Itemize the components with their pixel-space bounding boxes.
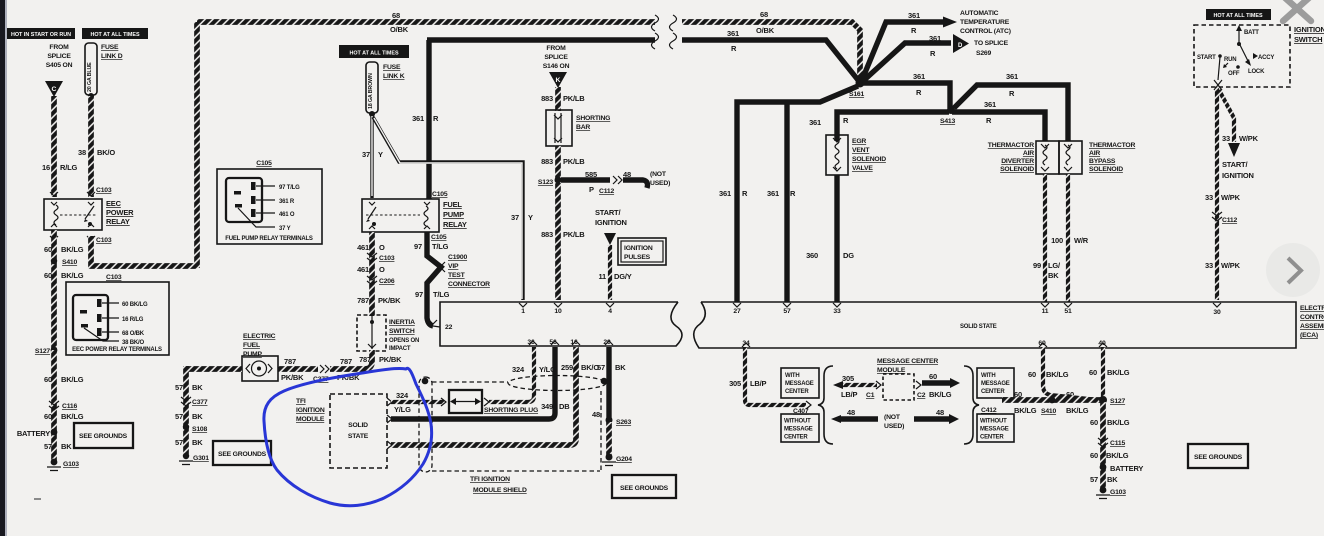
svg-text:BK/LG: BK/LG (1046, 370, 1069, 379)
svg-text:BK/LG: BK/LG (61, 245, 84, 254)
connector C377 (pump) (320, 365, 329, 373)
svg-text:C115: C115 (1110, 440, 1125, 447)
splice S410 (51, 258, 57, 264)
svg-text:360: 360 (806, 251, 818, 260)
svg-text:BK: BK (61, 442, 72, 451)
svg-text:SEE GROUNDS: SEE GROUNDS (620, 485, 669, 492)
svg-text:MESSAGE: MESSAGE (784, 427, 813, 433)
svg-text:37 Y: 37 Y (279, 226, 291, 232)
svg-text:THERMACTOR: THERMACTOR (1089, 142, 1135, 149)
svg-text:R/LG: R/LG (60, 163, 77, 172)
svg-text:259: 259 (561, 363, 573, 372)
wire 60 BK/LG S127 to C115 (1100, 402, 1106, 490)
pin 10 (554, 303, 562, 307)
svg-text:787: 787 (340, 357, 352, 366)
svg-text:HOT AT ALL TIMES: HOT AT ALL TIMES (1213, 13, 1263, 19)
svg-text:RELAY: RELAY (443, 220, 467, 229)
svg-text:(NOT: (NOT (884, 414, 901, 421)
box WITH MESSAGE CENTER (left) (781, 368, 819, 398)
wire 361 R S161 to ATC (862, 22, 944, 80)
svg-text:IMPACT: IMPACT (389, 346, 411, 352)
svg-text:361: 361 (913, 72, 925, 81)
svg-text:MODULE SHIELD: MODULE SHIELD (473, 487, 527, 494)
svg-text:R: R (742, 189, 748, 198)
wire 305 LB/P brace to module (C1) (833, 381, 843, 389)
svg-text:TEMPERATURE: TEMPERATURE (960, 19, 1010, 26)
svg-text:Y: Y (528, 213, 533, 222)
svg-text:33: 33 (1205, 193, 1213, 202)
svg-text:R: R (790, 189, 796, 198)
svg-text:BK: BK (615, 363, 626, 372)
wire 361 R S161 to ECA pins 27 and 57 (737, 86, 858, 302)
box WITHOUT MESSAGE CENTER (right) (977, 414, 1014, 442)
svg-text:THERMACTOR: THERMACTOR (988, 142, 1034, 149)
bus wire 68 O/BK right segment to S161 (682, 22, 860, 80)
label HOT AT ALL TIMES (fuse link D) (82, 28, 148, 39)
svg-text:FROM: FROM (49, 44, 69, 51)
svg-text:FUEL: FUEL (243, 342, 260, 349)
riser 68 O/BK up to top bus (194, 22, 200, 268)
svg-text:SEE GROUNDS: SEE GROUNDS (79, 433, 128, 440)
svg-text:30: 30 (1213, 309, 1221, 316)
svg-text:33: 33 (833, 308, 841, 315)
svg-text:SOLID STATE: SOLID STATE (960, 324, 997, 330)
svg-text:P: P (589, 185, 594, 194)
ground G301 (183, 453, 189, 459)
svg-text:60: 60 (44, 245, 52, 254)
wire 37 Y fuse link K down to relay (370, 114, 373, 198)
svg-text:FUEL: FUEL (443, 200, 462, 209)
svg-text:1: 1 (521, 308, 525, 315)
svg-text:LINK D: LINK D (101, 53, 123, 60)
wire 787 PK/BK inertia switch to pump (330, 350, 372, 369)
connector K (triangle) (549, 72, 567, 88)
svg-text:BK/LG: BK/LG (1107, 418, 1130, 427)
svg-text:R: R (1009, 89, 1015, 98)
svg-text:C105: C105 (256, 160, 272, 167)
svg-text:PK/BK: PK/BK (379, 355, 402, 364)
connector C (triangle) (45, 81, 63, 97)
wire 883 PK/LB connector K to shorting bar (555, 87, 561, 111)
svg-text:AUTOMATIC: AUTOMATIC (960, 10, 999, 17)
svg-text:MODULE: MODULE (296, 416, 325, 423)
wire 305 LB/P ECA pin 34 to C407 (745, 347, 806, 405)
svg-text:324: 324 (396, 391, 409, 400)
svg-text:TO SPLICE: TO SPLICE (974, 40, 1009, 47)
connector C103 (bottom of relay) (50, 236, 95, 240)
svg-text:SWITCH: SWITCH (1294, 35, 1322, 44)
svg-text:IGNITION: IGNITION (1222, 171, 1254, 180)
svg-text:BK/LG: BK/LG (61, 375, 84, 384)
svg-text:11: 11 (598, 272, 606, 281)
svg-text:60: 60 (1090, 451, 1098, 460)
svg-text:38: 38 (78, 148, 86, 157)
svg-text:57: 57 (175, 383, 183, 392)
svg-text:Y: Y (378, 150, 383, 159)
svg-text:FUSE: FUSE (101, 44, 119, 51)
wire 461 O relay to C103 (369, 232, 375, 316)
splice S161 (856, 79, 865, 88)
svg-text:PK/LB: PK/LB (563, 230, 585, 239)
svg-text:ASSEMBL: ASSEMBL (1300, 323, 1324, 330)
svg-text:LOCK: LOCK (1248, 69, 1265, 75)
pin 4 (606, 303, 614, 307)
svg-text:PK/LB: PK/LB (563, 157, 585, 166)
connector D (triangle) (953, 34, 969, 53)
svg-text:MESSAGE CENTER: MESSAGE CENTER (877, 358, 938, 365)
connector C1900 VIP test connector (437, 262, 445, 272)
svg-text:97 T/LG: 97 T/LG (279, 185, 300, 191)
svg-text:MESSAGE: MESSAGE (981, 381, 1010, 387)
ground G204 (606, 454, 613, 461)
svg-text:4: 4 (608, 308, 612, 315)
wire 361 R S161 to splice S269 (862, 43, 951, 82)
svg-text:SOLENOID: SOLENOID (1000, 166, 1034, 173)
svg-text:18 GA BROWN: 18 GA BROWN (368, 73, 374, 109)
svg-text:60 BK/LG: 60 BK/LG (122, 302, 148, 308)
svg-text:SOLENOID: SOLENOID (1089, 166, 1123, 173)
svg-text:T/LG: T/LG (433, 290, 450, 299)
svg-text:STATE: STATE (348, 433, 369, 440)
svg-text:SWITCH: SWITCH (389, 328, 415, 335)
svg-text:S410: S410 (62, 259, 77, 266)
svg-text:SEE GROUNDS: SEE GROUNDS (1194, 454, 1243, 461)
svg-text:PK/LB: PK/LB (563, 94, 585, 103)
svg-text:361: 361 (984, 100, 996, 109)
svg-text:R: R (843, 116, 849, 125)
wire 324 Y/LG TFI to shorting plug (391, 400, 444, 404)
svg-text:EEC POWER RELAY TERMINALS: EEC POWER RELAY TERMINALS (72, 347, 162, 353)
pin 33 (833, 303, 841, 307)
wire 57 BK ECA pin 20 to S263 (606, 347, 611, 420)
svg-text:C1900: C1900 (448, 254, 467, 261)
svg-text:IGNITION: IGNITION (595, 218, 627, 227)
svg-text:SOLENOID: SOLENOID (852, 156, 886, 163)
TFI pin connectors (387, 398, 392, 449)
splice S123 (555, 177, 562, 184)
wire 60 BK/LG module to right (C2) (916, 381, 921, 389)
svg-text:C412: C412 (981, 407, 997, 414)
svg-text:G103: G103 (1110, 489, 1126, 496)
wire 48 (not used, left) (831, 415, 841, 423)
wire 57 BK pump to ground column (186, 366, 242, 372)
left dark screen strip (0, 0, 5, 536)
pin 30 (1213, 303, 1221, 307)
svg-text:51: 51 (1064, 308, 1072, 315)
svg-text:EGR: EGR (852, 138, 866, 145)
svg-text:361: 361 (412, 114, 424, 123)
svg-text:787: 787 (357, 296, 369, 305)
svg-text:S269: S269 (976, 50, 991, 57)
svg-text:C112: C112 (599, 188, 614, 195)
svg-text:R: R (433, 114, 439, 123)
svg-text:60: 60 (1090, 418, 1098, 427)
svg-text:VIP: VIP (448, 263, 459, 270)
node BATTERY (left) (51, 429, 58, 436)
svg-text:305: 305 (729, 379, 741, 388)
svg-text:C2: C2 (917, 392, 926, 399)
svg-text:O/BK: O/BK (756, 26, 775, 35)
connector C206 (367, 276, 377, 285)
svg-text:WITHOUT: WITHOUT (784, 419, 811, 425)
solenoid: thermactor air diverter solenoid (1036, 141, 1059, 174)
node BATTERY (right) (1100, 464, 1107, 471)
svg-text:S413: S413 (940, 118, 955, 125)
wire 99 LG/BK diverter solenoid to ECA pin 11 (1043, 174, 1047, 302)
svg-text:787: 787 (284, 357, 296, 366)
pin 57 (783, 303, 791, 307)
ground G103 (left) (51, 459, 58, 466)
svg-text:R: R (930, 49, 936, 58)
svg-text:37: 37 (511, 213, 519, 222)
svg-text:ACCY: ACCY (1258, 55, 1274, 61)
svg-text:R: R (986, 116, 992, 125)
connector C112 (ignition feed) (1212, 212, 1222, 221)
svg-text:57: 57 (44, 442, 52, 451)
svg-text:OPENS ON: OPENS ON (389, 338, 419, 344)
svg-text:BK/O: BK/O (97, 148, 115, 157)
brace (right group) (964, 366, 979, 444)
svg-text:C206: C206 (379, 278, 395, 285)
shield: TFI ignition module shield (419, 376, 606, 473)
svg-text:461: 461 (357, 265, 369, 274)
svg-text:349: 349 (541, 402, 553, 411)
svg-text:SPLICE: SPLICE (47, 53, 71, 60)
svg-text:RUN: RUN (1224, 57, 1236, 63)
svg-text:PK/BK: PK/BK (281, 373, 304, 382)
pin 1 (519, 303, 527, 307)
svg-text:OFF: OFF (1228, 71, 1240, 77)
svg-text:IGNITION: IGNITION (624, 245, 653, 252)
svg-text:27: 27 (733, 308, 741, 315)
connector C115 (1098, 438, 1108, 447)
svg-text:PK/BK: PK/BK (378, 296, 401, 305)
svg-text:60: 60 (44, 375, 52, 384)
node: FROM SPLICE S405 ON (46, 44, 73, 69)
svg-text:BK/LG: BK/LG (929, 390, 952, 399)
svg-text:BK/LG: BK/LG (61, 412, 84, 421)
ground G103 (right) (1100, 487, 1107, 494)
svg-text:37: 37 (362, 150, 370, 159)
svg-text:VENT: VENT (852, 147, 870, 154)
svg-text:SOLID: SOLID (348, 422, 368, 429)
IC: ECA solid state module (left part) (440, 302, 682, 346)
svg-text:START: START (1197, 55, 1216, 61)
svg-text:S161: S161 (849, 91, 864, 98)
svg-text:G301: G301 (193, 455, 209, 462)
svg-text:97: 97 (415, 290, 423, 299)
svg-text:K: K (556, 77, 561, 84)
svg-text:57: 57 (597, 363, 605, 372)
svg-text:AIR: AIR (1089, 150, 1100, 157)
wire 361 R S161 to S413 (863, 83, 950, 108)
wire 38 BK/O fuse link D to relay (88, 96, 94, 197)
solenoid: EGR vent solenoid valve (826, 135, 848, 175)
bus wire 361 R right segment to S161 (682, 40, 858, 80)
fuse link K (366, 62, 405, 117)
svg-text:W/PK: W/PK (1221, 261, 1241, 270)
svg-text:TFI IGNITION: TFI IGNITION (470, 476, 510, 483)
svg-text:PULSES: PULSES (624, 254, 651, 261)
wire 33 W/PK ignition switch to START/IGNITION arrow (1214, 80, 1222, 90)
relay: EEC power relay (44, 199, 102, 230)
svg-text:USED): USED) (884, 423, 904, 430)
svg-text:W/PK: W/PK (1221, 193, 1241, 202)
wire 100 W/R bypass solenoid to ECA pin 51 (1066, 174, 1070, 302)
svg-text:S123: S123 (538, 179, 553, 186)
svg-text:48: 48 (847, 408, 855, 417)
svg-text:48: 48 (592, 410, 600, 419)
svg-text:BATTERY: BATTERY (1110, 464, 1143, 473)
svg-text:PUMP: PUMP (443, 210, 464, 219)
svg-text:S263: S263 (616, 419, 631, 426)
svg-text:FROM: FROM (546, 45, 566, 52)
svg-text:C103: C103 (96, 237, 112, 244)
svg-text:BK/LG: BK/LG (61, 271, 84, 280)
svg-text:CENTER: CENTER (980, 435, 1004, 441)
svg-text:O/BK: O/BK (390, 25, 409, 34)
svg-text:22: 22 (445, 324, 453, 331)
svg-text:48: 48 (936, 408, 944, 417)
svg-text:T/LG: T/LG (432, 242, 449, 251)
shorting plug (441, 398, 446, 406)
svg-text:MESSAGE: MESSAGE (785, 381, 814, 387)
svg-text:FUEL PUMP RELAY TERMINALS: FUEL PUMP RELAY TERMINALS (225, 236, 313, 242)
relay: fuel pump relay (362, 199, 439, 232)
svg-text:324: 324 (512, 365, 525, 374)
wire 57 BK S263 to G204 (606, 422, 612, 457)
svg-text:57: 57 (783, 308, 791, 315)
svg-text:BAR: BAR (576, 124, 590, 131)
wire 16 R/LG from connector C to EEC power relay (51, 96, 57, 197)
svg-text:TFI: TFI (296, 398, 306, 405)
annotation: blue highlight loop around TFI module (264, 368, 432, 505)
svg-text:BK/LG: BK/LG (1107, 368, 1130, 377)
label HOT IN START OR RUN (7, 28, 75, 39)
svg-text:C103: C103 (106, 274, 122, 281)
box SEE GROUNDS (S263) (612, 475, 676, 498)
svg-text:POWER: POWER (106, 208, 134, 217)
svg-text:IGNITION: IGNITION (1294, 25, 1324, 34)
wire 324 Y/LG shorting plug to ECA pin 36 (489, 347, 534, 402)
svg-text:SHORTING: SHORTING (576, 115, 610, 122)
svg-text:R: R (911, 26, 917, 35)
svg-text:16 R/LG: 16 R/LG (122, 317, 144, 323)
svg-text:33: 33 (1205, 261, 1213, 270)
arrow into ignition pulses wire (604, 233, 616, 245)
svg-text:461 O: 461 O (279, 212, 295, 218)
svg-text:EEC: EEC (106, 199, 122, 208)
svg-text:CENTER: CENTER (784, 435, 808, 441)
svg-text:HOT IN START OR RUN: HOT IN START OR RUN (11, 32, 71, 38)
svg-text:60: 60 (1014, 390, 1022, 399)
svg-text:C112: C112 (1222, 217, 1237, 224)
svg-text:D: D (958, 43, 963, 49)
splice S108 (183, 424, 189, 430)
connector view C103: EEC power relay terminals (66, 274, 169, 355)
svg-text:38 BK/O: 38 BK/O (122, 340, 144, 346)
svg-text:ELECTRON: ELECTRON (1300, 305, 1324, 312)
svg-text:100: 100 (1051, 236, 1063, 245)
bus break symbols (656, 12, 682, 50)
splice S263 (606, 417, 613, 424)
wire 60 BK/LG relay to S410 (51, 230, 57, 350)
svg-text:SPLICE: SPLICE (544, 54, 568, 61)
svg-text:Y/LG: Y/LG (394, 405, 411, 414)
svg-text:S405 ON: S405 ON (46, 62, 73, 69)
svg-text:BK: BK (192, 412, 203, 421)
svg-text:BK: BK (192, 383, 203, 392)
svg-text:20 GA BLUE: 20 GA BLUE (87, 62, 93, 92)
pin 51 (1064, 303, 1072, 307)
shorting bar (546, 110, 572, 146)
svg-text:BYPASS: BYPASS (1089, 158, 1116, 165)
wire 259 BK/O ECA pin 56 to TFI (391, 347, 555, 419)
svg-text:C377: C377 (192, 399, 208, 406)
svg-text:60: 60 (44, 412, 52, 421)
svg-text:60: 60 (929, 372, 937, 381)
svg-text:C105: C105 (432, 191, 448, 198)
wire 60 BK/LG C412 to S127 (1002, 397, 1102, 403)
svg-text:O: O (379, 265, 385, 274)
svg-text:48: 48 (623, 170, 631, 179)
wire 883 PK/LB shorting bar to S123 (555, 146, 561, 180)
svg-text:TEST: TEST (448, 272, 466, 279)
svg-text:START/: START/ (1222, 160, 1248, 169)
svg-text:RELAY: RELAY (106, 217, 130, 226)
svg-text:361: 361 (719, 189, 731, 198)
svg-text:CENTER: CENTER (981, 389, 1005, 395)
svg-text:361: 361 (727, 29, 739, 38)
svg-text:BK/LG: BK/LG (1014, 406, 1037, 415)
svg-text:305: 305 (842, 374, 854, 383)
svg-text:ELECTRIC: ELECTRIC (243, 333, 276, 340)
svg-text:C103: C103 (379, 255, 395, 262)
svg-text:(ECA): (ECA) (1300, 332, 1318, 339)
svg-text:WITH: WITH (785, 373, 800, 379)
svg-text:C116: C116 (62, 403, 77, 410)
svg-text:S410: S410 (1041, 408, 1056, 415)
svg-text:WITHOUT: WITHOUT (980, 419, 1007, 425)
svg-text:O: O (379, 243, 385, 252)
svg-text:361: 361 (809, 118, 821, 127)
svg-text:60: 60 (44, 271, 52, 280)
svg-text:68: 68 (392, 11, 400, 20)
svg-text:CENTER: CENTER (785, 389, 809, 395)
svg-text:361: 361 (767, 189, 779, 198)
svg-text:S108: S108 (192, 426, 207, 433)
svg-text:CONTROL (ATC): CONTROL (ATC) (960, 28, 1011, 35)
label HOT AT ALL TIMES (fuse link K) (339, 45, 409, 58)
svg-text:DG: DG (843, 251, 854, 260)
wire 60 BK/LG S127 to C116 (51, 350, 57, 462)
stray pen mark (34, 498, 41, 500)
splice S413 (947, 106, 955, 114)
box SEE GROUNDS (right) (1188, 444, 1248, 468)
wire 360 DG EGR to ECA pin 33 (834, 175, 839, 302)
wire 33 W/PK ignition switch to C112 (1215, 87, 1219, 300)
svg-text:HOT AT ALL TIMES: HOT AT ALL TIMES (90, 32, 140, 38)
wire 48 (not used, right) (914, 416, 950, 421)
svg-text:START/: START/ (595, 208, 621, 217)
svg-text:LB/P: LB/P (841, 390, 857, 399)
svg-text:FUSE: FUSE (383, 64, 401, 71)
splice S127 (left) (51, 347, 58, 354)
svg-text:11: 11 (1042, 308, 1049, 315)
svg-text:60: 60 (1089, 368, 1097, 377)
bus wire 68 O/BK (hatched, top) (197, 19, 655, 25)
svg-text:W/R: W/R (1074, 236, 1089, 245)
